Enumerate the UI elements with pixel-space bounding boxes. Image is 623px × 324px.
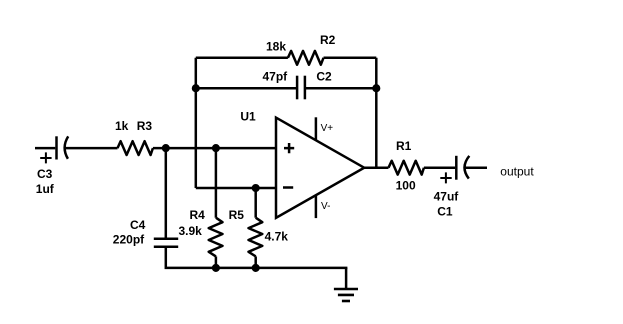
node R5 top junction xyxy=(253,185,259,191)
node feedback right junction xyxy=(374,85,380,91)
wire C4 to ground rail xyxy=(166,247,348,268)
pin V- stub xyxy=(315,195,318,218)
pin V+ stub xyxy=(315,117,318,140)
svg-text:C4: C4 xyxy=(130,218,146,232)
svg-text:output: output xyxy=(500,165,534,179)
svg-text:18k: 18k xyxy=(266,40,286,54)
wire output lead xyxy=(465,166,487,169)
node R4 bottom junction xyxy=(213,265,219,271)
wire C2 right xyxy=(305,87,376,90)
svg-text:R5: R5 xyxy=(229,208,245,222)
ground xyxy=(334,268,358,301)
wire feedback top right xyxy=(324,57,377,60)
resistor R4 xyxy=(209,148,223,268)
svg-text:C3: C3 xyxy=(37,167,53,181)
svg-text:R1: R1 xyxy=(396,139,412,153)
svg-text:100: 100 xyxy=(396,179,416,193)
resistor R3 xyxy=(118,141,153,155)
wire input lead xyxy=(35,147,55,150)
resistor R5 xyxy=(249,188,263,268)
svg-text:R2: R2 xyxy=(320,33,336,47)
wire feedback top left xyxy=(196,57,288,60)
svg-text:220pf: 220pf xyxy=(113,232,145,246)
resistor R1 xyxy=(389,161,424,175)
wire minus input xyxy=(196,187,276,190)
svg-text:V+: V+ xyxy=(321,123,334,134)
svg-text:1k: 1k xyxy=(115,119,129,133)
wire C2 left xyxy=(196,87,297,90)
svg-text:R3: R3 xyxy=(137,119,153,133)
capacitor C2 xyxy=(297,76,305,100)
wire R1 to C1 xyxy=(424,166,455,169)
svg-text:47uf: 47uf xyxy=(434,189,460,203)
svg-text:R4: R4 xyxy=(190,208,206,222)
node feedback left junction xyxy=(193,85,199,91)
wire C3 to R3 xyxy=(65,147,118,150)
capacitor C3 xyxy=(40,136,68,163)
svg-text:C1: C1 xyxy=(437,205,453,219)
svg-text:47pf: 47pf xyxy=(263,69,289,83)
capacitor C4 xyxy=(154,239,178,247)
op-amp U1 xyxy=(276,118,364,218)
svg-text:V-: V- xyxy=(321,201,330,212)
wire node down to C4 xyxy=(165,148,168,239)
wire feedback right vertical xyxy=(375,58,378,168)
svg-text:1uf: 1uf xyxy=(36,182,55,196)
wire R3 to op-amp plus input xyxy=(153,147,276,150)
wire feedback left vertical xyxy=(195,58,198,188)
wire op-amp output xyxy=(364,166,388,169)
resistor R2 xyxy=(288,51,324,65)
svg-text:4.7k: 4.7k xyxy=(265,230,289,244)
node R5 bottom junction xyxy=(253,265,259,271)
node R4 top junction xyxy=(213,145,219,151)
node input junction xyxy=(163,145,169,151)
svg-text:U1: U1 xyxy=(240,110,256,124)
svg-text:3.9k: 3.9k xyxy=(179,224,203,238)
svg-text:C2: C2 xyxy=(316,69,332,83)
capacitor C1 xyxy=(440,156,469,184)
